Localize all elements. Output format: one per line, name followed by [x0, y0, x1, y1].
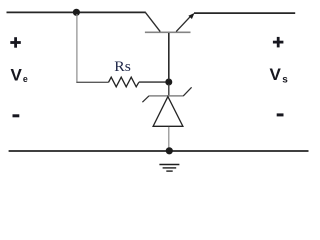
transistor Q1 emitter arrowhead: [188, 13, 194, 19]
zener diode D1 cathode bar: [149, 95, 184, 97]
transistor Q1 base lead down to node B: [168, 33, 170, 80]
transistor Q1 emitter lead: [176, 16, 191, 32]
label + input polarity: [10, 37, 20, 48]
wire horizontal lead from corner into resistor Rs: [76, 81, 108, 83]
transistor Q1 collector lead: [146, 13, 161, 32]
zener diode D1 anode triangle: [153, 97, 183, 127]
label - output polarity: [277, 113, 284, 116]
wire node B down to zener cathode: [168, 84, 170, 96]
svg-text:Rs: Rs: [114, 59, 131, 75]
svg-text:V: V: [11, 66, 23, 85]
svg-text:s: s: [282, 74, 288, 85]
wire bottom ground rail: [9, 150, 309, 152]
wire top rail left segment (input + to collector): [7, 11, 146, 13]
wire resistor Rs to node B: [139, 81, 166, 83]
label - input polarity: [13, 114, 20, 117]
wire zener anode down to ground rail: [168, 127, 170, 151]
transistor Q1 base bar: [145, 31, 191, 33]
wire top rail right segment (emitter to output +): [194, 12, 295, 14]
junction node B (transistor base / zener cathode node): [165, 79, 172, 86]
svg-text:V: V: [270, 65, 282, 84]
svg-text:e: e: [23, 74, 28, 84]
resistor Rs zigzag body: [109, 77, 139, 87]
wire vertical drop from node A down to Rs lead: [76, 14, 78, 83]
ground symbol: [159, 165, 179, 172]
junction node A on top rail: [73, 9, 80, 16]
zener diode D1 cathode left bend: [142, 96, 149, 102]
junction node C on ground rail: [166, 147, 173, 154]
zener diode D1 cathode right bend: [183, 87, 191, 96]
label + output polarity: [273, 37, 284, 48]
